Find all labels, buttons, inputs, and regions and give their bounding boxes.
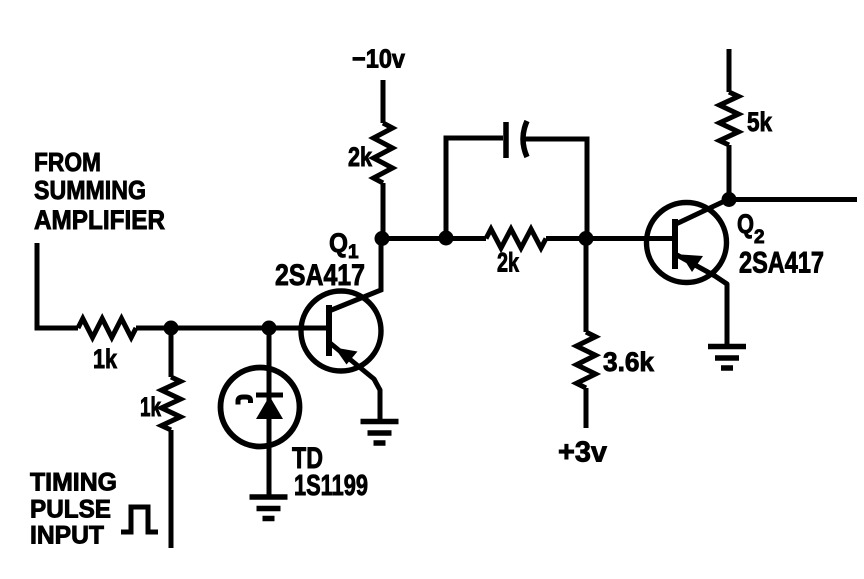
svg-text:1k: 1k bbox=[93, 344, 118, 374]
svg-text:2k: 2k bbox=[348, 142, 373, 172]
svg-text:Q1: Q1 bbox=[329, 228, 359, 263]
svg-text:FROM: FROM bbox=[34, 147, 101, 177]
svg-text:5k: 5k bbox=[747, 107, 773, 137]
svg-text:PULSE: PULSE bbox=[30, 496, 111, 524]
svg-text:2SA417: 2SA417 bbox=[275, 259, 365, 292]
svg-text:Q2: Q2 bbox=[737, 209, 765, 248]
svg-text:1S1199: 1S1199 bbox=[294, 470, 368, 502]
svg-text:INPUT: INPUT bbox=[30, 522, 104, 550]
svg-text:TIMING: TIMING bbox=[30, 469, 117, 497]
svg-text:1k: 1k bbox=[140, 392, 162, 422]
svg-text:AMPLIFIER: AMPLIFIER bbox=[34, 205, 165, 235]
svg-text:−10v: −10v bbox=[352, 44, 405, 74]
svg-text:SUMMING: SUMMING bbox=[34, 175, 146, 205]
svg-text:2k: 2k bbox=[497, 248, 520, 278]
svg-text:2SA417: 2SA417 bbox=[739, 247, 824, 280]
svg-text:+3v: +3v bbox=[558, 437, 607, 469]
svg-text:3.6k: 3.6k bbox=[603, 347, 655, 377]
